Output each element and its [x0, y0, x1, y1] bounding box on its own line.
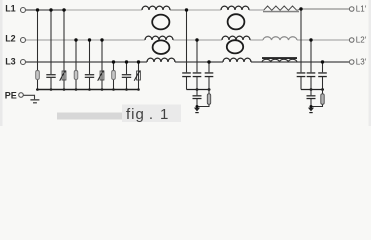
svg-text:L1′: L1′ [356, 4, 367, 13]
svg-text:L2: L2 [5, 34, 16, 44]
svg-text:L2′: L2′ [356, 35, 367, 44]
svg-text:L1: L1 [5, 4, 16, 14]
svg-text:L3′: L3′ [356, 57, 367, 66]
svg-text:PE: PE [5, 90, 17, 100]
svg-text:L3: L3 [5, 57, 16, 67]
